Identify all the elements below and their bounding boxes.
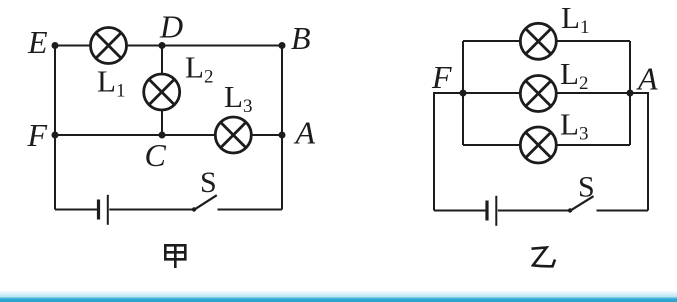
svg-text:S: S <box>578 171 595 204</box>
svg-text:S: S <box>200 166 217 199</box>
svg-text:F: F <box>431 59 452 95</box>
svg-text:E: E <box>27 24 48 60</box>
svg-text:D: D <box>159 9 183 45</box>
svg-text:C: C <box>145 137 167 173</box>
svg-text:F: F <box>27 117 48 153</box>
svg-text:A: A <box>294 115 316 151</box>
svg-text:B: B <box>291 20 311 56</box>
svg-text:A: A <box>636 61 658 97</box>
